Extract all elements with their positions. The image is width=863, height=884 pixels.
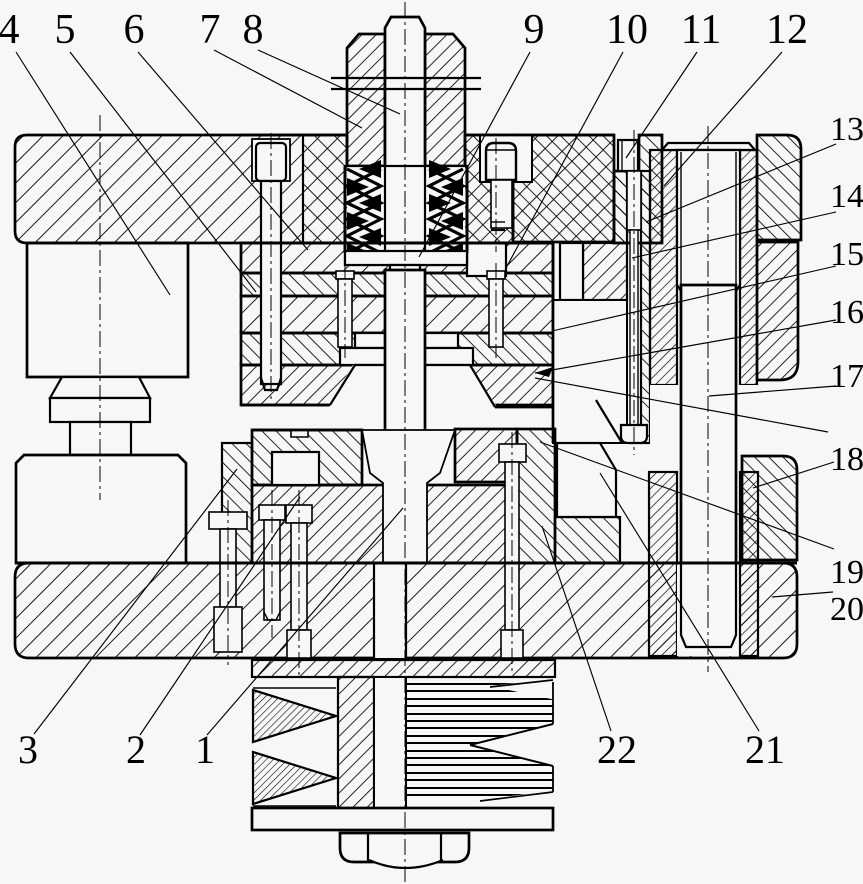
svg-text:8: 8 xyxy=(243,7,264,53)
stack screw B centreline xyxy=(495,263,497,358)
rod edge through spring left xyxy=(384,166,386,253)
svg-text:6: 6 xyxy=(124,7,145,53)
leader 17 xyxy=(709,386,836,396)
leader 7 xyxy=(214,50,362,128)
svg-text:20: 20 xyxy=(830,591,863,628)
guide pin head xyxy=(256,143,286,181)
pillar lower part xyxy=(681,563,736,647)
stack top boundary xyxy=(241,242,553,245)
leader 5 xyxy=(70,52,256,292)
svg-text:18: 18 xyxy=(830,441,863,478)
leader 6 xyxy=(138,52,308,250)
lower pin tip xyxy=(264,612,280,620)
top plate cross-hatched block xyxy=(513,135,614,242)
lower pin washer xyxy=(259,505,285,520)
leader 17b xyxy=(535,378,828,432)
lower bush left wall xyxy=(649,472,677,656)
guide pillar upper bore xyxy=(677,150,740,285)
arrow head leader 16 xyxy=(535,367,553,377)
bottom spring sleeve xyxy=(338,677,374,808)
rod hole through plate xyxy=(374,563,406,658)
bolt B slot xyxy=(505,462,519,630)
coil V notch lower edge xyxy=(470,745,553,766)
screw 11 thread foot xyxy=(491,229,505,231)
top plate section right of bolt notch xyxy=(614,135,662,243)
left bushing chamfer step xyxy=(50,377,150,398)
pillar transition left xyxy=(677,285,681,291)
lower left clamp strip xyxy=(222,443,252,563)
bolt B washer 22 xyxy=(499,444,526,462)
guide pin shank xyxy=(261,181,281,384)
top plate centre section xyxy=(465,135,513,243)
bolt 12 lower shank xyxy=(630,230,638,425)
svg-text:3: 3 xyxy=(18,727,38,772)
spring wire sections xyxy=(347,160,463,261)
boss insert crosshatch left xyxy=(303,135,347,243)
stack screw A slot xyxy=(338,279,352,347)
svg-text:14: 14 xyxy=(830,178,863,215)
die insert 3 xyxy=(272,452,319,485)
leader 4 xyxy=(16,52,170,295)
upper bush top flange xyxy=(662,143,755,150)
leader 8 xyxy=(258,50,400,114)
strip left of stripper bolt xyxy=(614,171,627,243)
leader 13 xyxy=(646,144,836,222)
stripper retainer hatched xyxy=(583,243,627,300)
svg-text:13: 13 xyxy=(830,111,863,148)
svg-text:19: 19 xyxy=(830,554,863,591)
leader 20 xyxy=(772,592,833,597)
stack screw A head xyxy=(336,271,354,279)
leader 1 xyxy=(207,508,403,735)
svg-text:12: 12 xyxy=(766,7,808,53)
screw 11 head xyxy=(486,143,516,180)
bottom rod xyxy=(374,677,406,808)
svg-text:16: 16 xyxy=(830,294,863,331)
left guide pillar neck xyxy=(70,422,131,455)
leader 16 xyxy=(535,320,836,373)
guide pillar 17 xyxy=(681,285,736,647)
cavity draft right xyxy=(470,365,495,407)
bolt A slot xyxy=(291,523,307,630)
washer pocket notch xyxy=(467,243,506,276)
screw rod end xyxy=(390,265,420,277)
svg-text:21: 21 xyxy=(745,727,785,772)
punch flange lower xyxy=(340,348,473,365)
left bolt washer xyxy=(209,512,247,529)
conical spring top cap xyxy=(253,687,336,689)
screw 11 shank clearance xyxy=(491,180,512,228)
hex facet left xyxy=(367,833,369,861)
leader 9 xyxy=(419,52,530,257)
leader 22 xyxy=(542,526,611,731)
top boss right half xyxy=(425,34,465,166)
svg-text:15: 15 xyxy=(830,236,863,273)
leader 10 xyxy=(506,52,623,268)
lower pin slot xyxy=(264,520,280,620)
coil spring external view xyxy=(406,684,553,795)
leader 11 xyxy=(626,52,697,158)
left bolt centreline xyxy=(227,500,229,665)
leader 14 xyxy=(632,212,836,258)
leader 2 xyxy=(140,497,300,735)
bolt A head xyxy=(287,630,311,658)
spring washer xyxy=(345,251,467,265)
leader 3 xyxy=(34,469,237,734)
bottom plate top boundary xyxy=(15,562,797,565)
svg-text:5: 5 xyxy=(55,7,76,53)
left bushing lower flange xyxy=(50,398,150,422)
upper die cavity block xyxy=(241,365,553,405)
screw 11 head dome line xyxy=(487,149,515,151)
die cavity white xyxy=(328,365,497,429)
bottom plate 20 xyxy=(15,563,797,658)
pillar plate hole xyxy=(677,563,740,656)
left bolt head xyxy=(214,607,242,652)
pocket wall left xyxy=(344,166,347,253)
main axis centreline xyxy=(404,2,406,882)
punch flange upper xyxy=(355,333,458,348)
lower pin centreline xyxy=(271,490,273,638)
left bolt shank xyxy=(220,529,236,607)
svg-text:7: 7 xyxy=(200,7,221,53)
spring pocket xyxy=(345,166,467,265)
boss insert crosshatch right xyxy=(465,135,513,242)
upper stack bottom left xyxy=(241,404,330,407)
bolt 12 foot xyxy=(621,425,647,443)
leader 19 xyxy=(540,442,834,549)
conical spring section lower xyxy=(253,752,336,804)
strip right of stripper bolt xyxy=(641,171,650,443)
bolt round end xyxy=(369,860,443,868)
lower die right block xyxy=(517,429,555,563)
coil right edge upper xyxy=(552,682,554,724)
die ring top notch xyxy=(291,430,308,437)
conical spring bottom cap xyxy=(253,805,336,807)
bolt A washer xyxy=(286,505,312,523)
pillar edge in bore right xyxy=(735,152,737,285)
left pillar centreline xyxy=(99,115,101,500)
screw rod 9 xyxy=(385,17,425,253)
bolt 12 head line xyxy=(621,140,623,171)
upper die plate xyxy=(241,333,553,365)
rod hole left edge xyxy=(373,563,375,658)
cavity draft left xyxy=(330,365,355,405)
pillar transition right xyxy=(736,285,740,291)
upper backing plate xyxy=(241,243,553,273)
svg-text:4: 4 xyxy=(0,7,20,53)
left lower guide block xyxy=(16,455,186,563)
stripper block chamfer xyxy=(596,400,622,443)
conical spring section upper xyxy=(253,690,336,742)
boss insert boundary xyxy=(302,135,304,243)
upper pad plate xyxy=(241,296,553,333)
plate top edge left xyxy=(241,134,347,137)
svg-text:22: 22 xyxy=(597,727,637,772)
bolt 12 centreline xyxy=(633,130,635,455)
lower bush right wall xyxy=(740,472,758,656)
lower bush flange 18 xyxy=(742,456,797,560)
upper guide bush flange xyxy=(757,242,798,380)
right pillar centreline xyxy=(707,126,709,672)
stripper notch white xyxy=(560,243,583,300)
guide pin centreline xyxy=(270,133,272,400)
stack screw A centreline xyxy=(344,263,346,358)
bolt 12 upper shank xyxy=(627,171,641,230)
bolt A centreline xyxy=(298,490,300,675)
screw 11 centreline xyxy=(495,138,497,252)
lower stripper step piece xyxy=(557,443,616,517)
svg-text:1: 1 xyxy=(195,727,215,772)
plate top edge mid xyxy=(465,134,614,137)
cross pin upper line xyxy=(331,77,481,79)
leader 12 xyxy=(664,52,782,186)
punch 1 xyxy=(385,270,425,499)
stack screw B slot xyxy=(489,279,503,347)
rod edge through spring right xyxy=(424,166,426,253)
stripper plate block xyxy=(553,300,627,443)
bolt B centreline xyxy=(511,432,513,672)
bolt 12 head xyxy=(618,140,638,171)
hex nut xyxy=(340,833,469,862)
die ring right xyxy=(455,429,517,482)
bottom spring seat washer xyxy=(252,660,555,677)
top plate left section xyxy=(15,135,347,243)
screw 11 thread foot 2 xyxy=(491,221,505,223)
coil top slant xyxy=(490,680,553,687)
stack screw B head xyxy=(487,271,505,279)
upper bush left wall xyxy=(650,150,677,385)
bolt B head xyxy=(501,630,523,658)
compression spring right column xyxy=(429,169,463,253)
lower cavity white xyxy=(362,430,455,563)
top boss left half xyxy=(347,34,385,166)
screw 11 pocket xyxy=(480,135,532,182)
coil V notch upper edge xyxy=(470,724,553,745)
stripper block left edge xyxy=(552,243,555,443)
top plate right end xyxy=(757,135,801,240)
svg-text:11: 11 xyxy=(681,7,721,53)
leader 18 xyxy=(753,462,834,488)
guide pin tip xyxy=(261,378,281,390)
upper stack bottom right xyxy=(495,406,553,409)
punch holder plate xyxy=(241,273,553,296)
pillar exposed band xyxy=(650,385,758,472)
svg-text:17: 17 xyxy=(830,358,863,395)
coil right edge lower xyxy=(552,766,554,792)
rod hole right edge xyxy=(405,563,407,658)
lower die right extension xyxy=(555,517,620,563)
bottom washer xyxy=(252,808,553,830)
cross pin lower line xyxy=(331,88,481,90)
svg-text:9: 9 xyxy=(524,7,545,53)
upper bush right wall xyxy=(740,150,757,385)
compression spring left column xyxy=(347,169,381,253)
svg-text:2: 2 xyxy=(126,727,146,772)
die ring left xyxy=(252,430,362,485)
leader 15 xyxy=(552,266,836,331)
left guide bushing cylinder xyxy=(27,243,188,377)
pillar edge in bore left xyxy=(680,152,682,285)
guide pin head pocket xyxy=(252,139,290,181)
lower die top edge xyxy=(252,429,362,432)
leader 21 xyxy=(600,473,759,731)
cavity top line xyxy=(355,364,470,366)
hex facet right xyxy=(440,833,442,861)
lower die main block xyxy=(252,485,517,563)
coil bottom slant xyxy=(480,792,553,801)
svg-text:10: 10 xyxy=(606,7,648,53)
pocket wall right xyxy=(466,166,469,253)
